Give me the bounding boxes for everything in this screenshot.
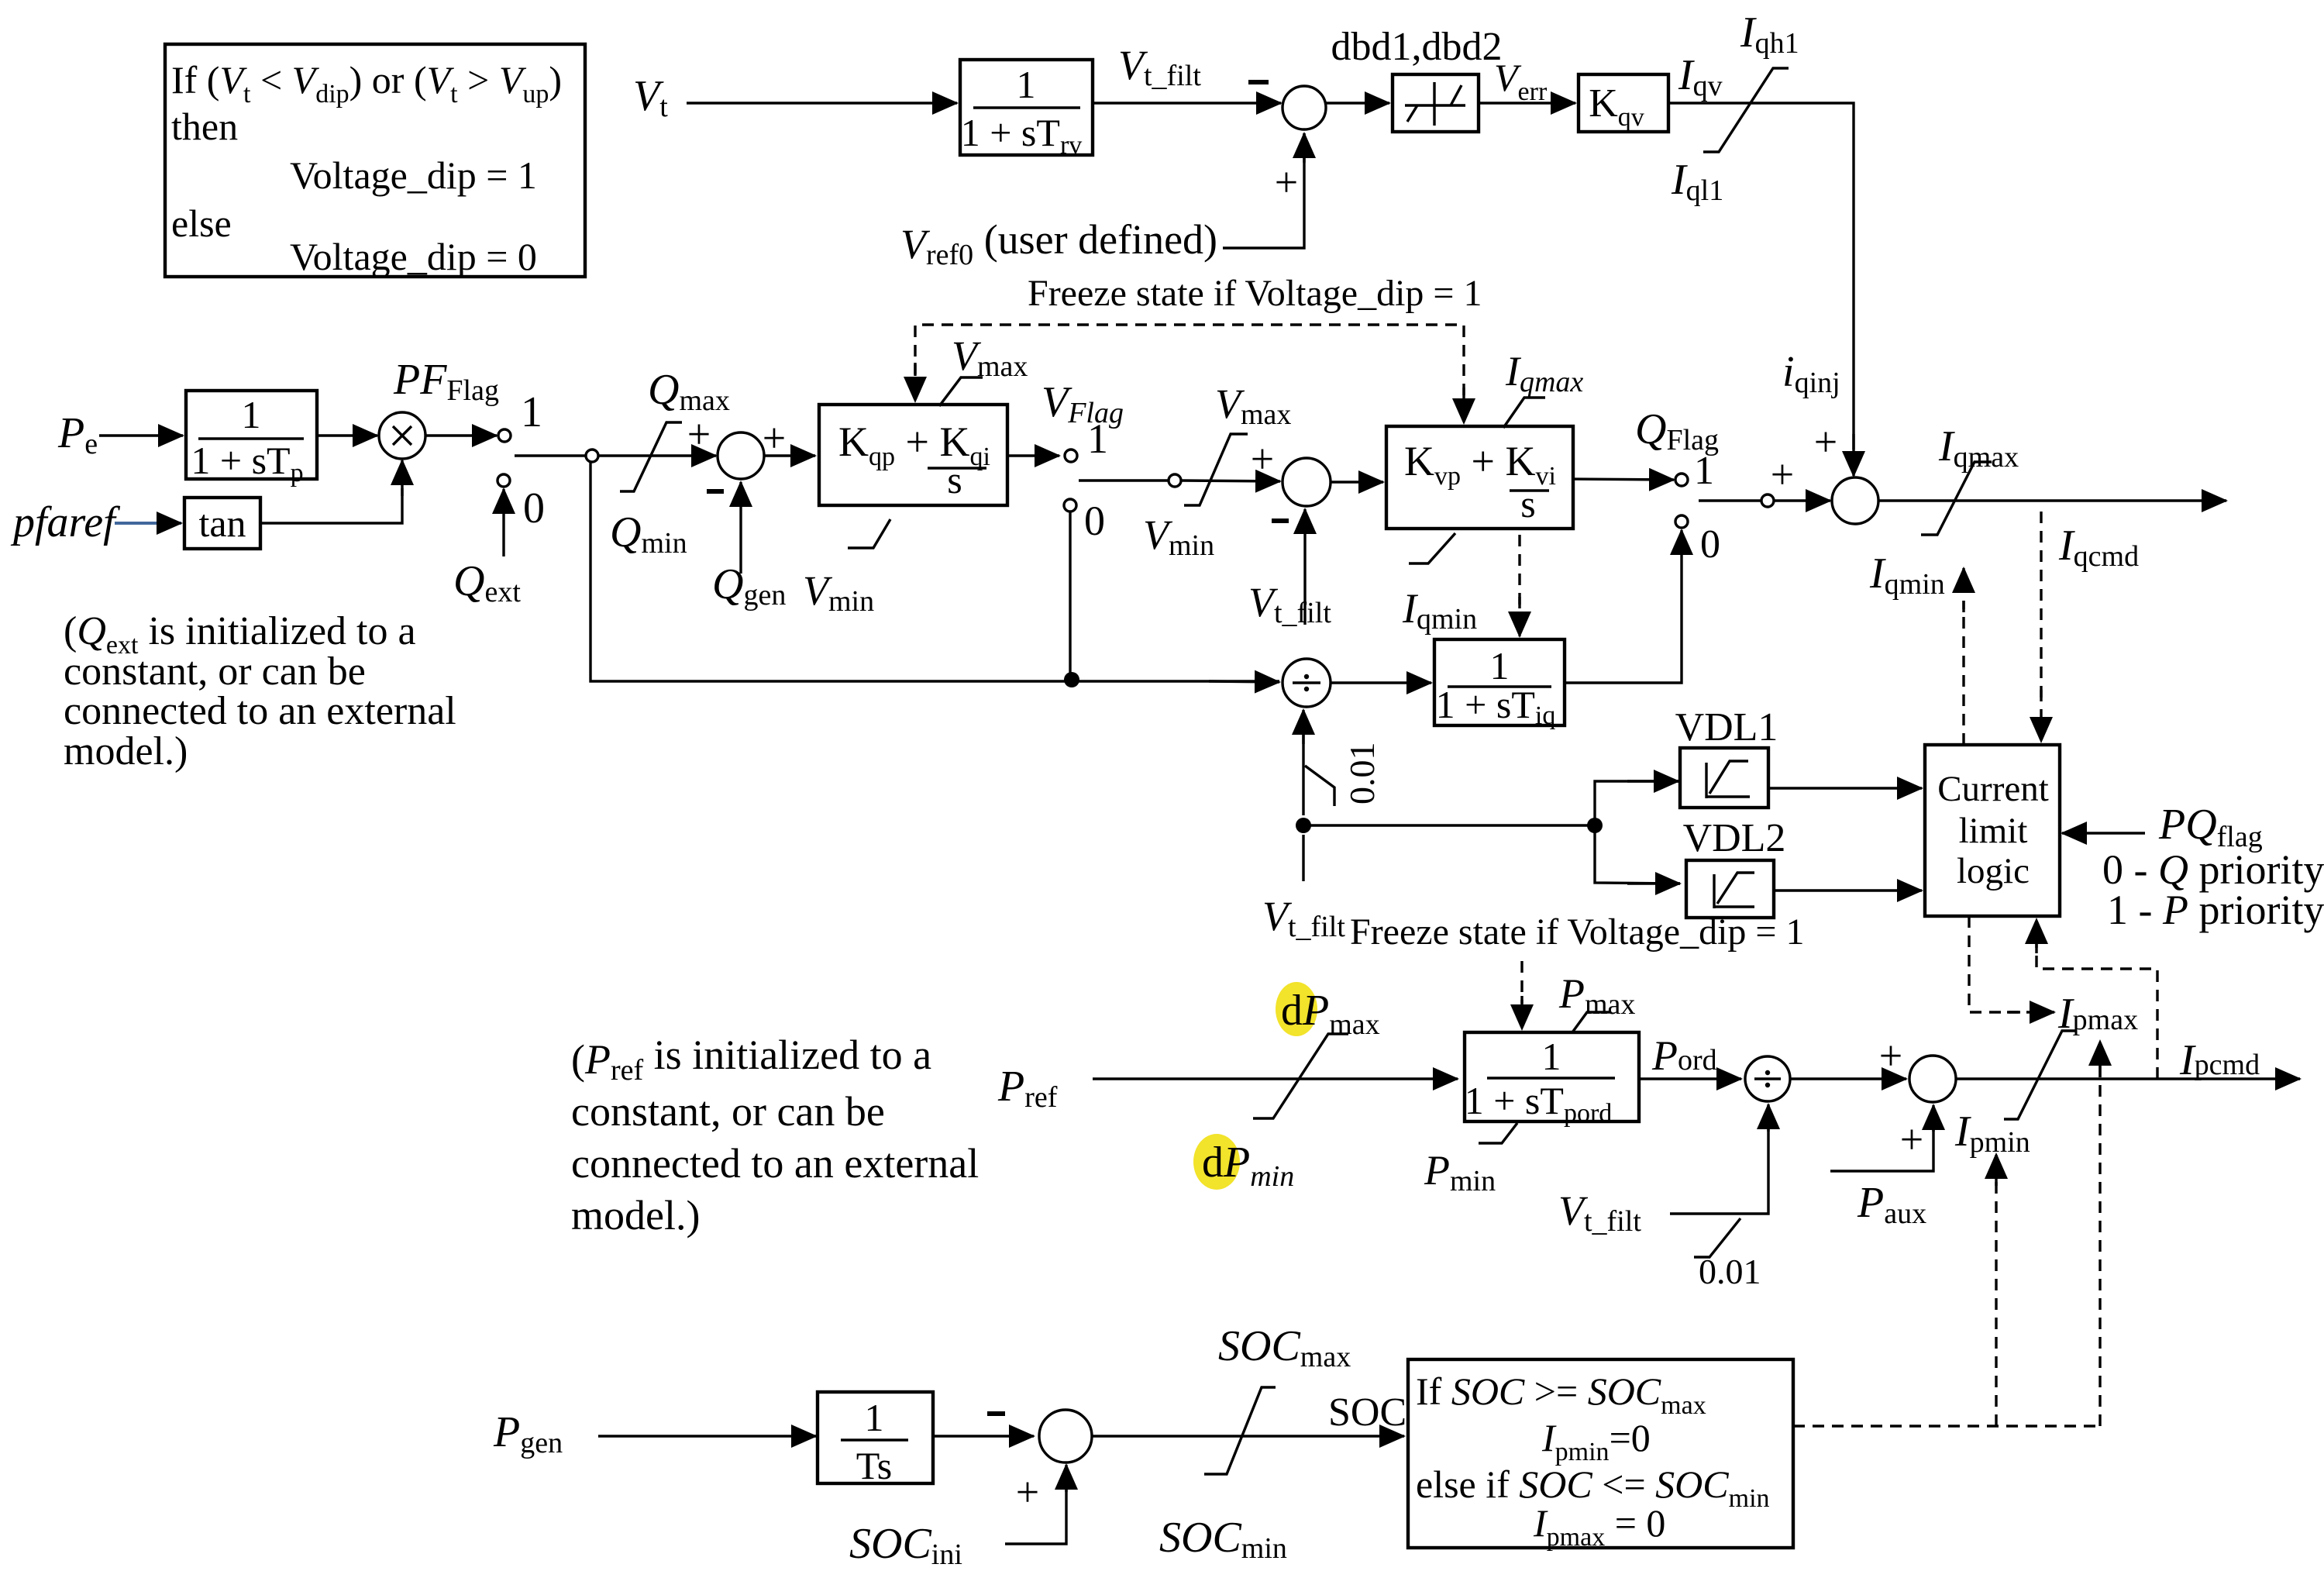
svg-text:Current: Current <box>1937 769 2049 809</box>
svg-text:0.01: 0.01 <box>1342 742 1382 805</box>
svg-text:If (Vt < Vdip) or (Vt > Vup): If (Vt < Vdip) or (Vt > Vup) <box>171 58 562 109</box>
svg-text:logic: logic <box>1957 851 2030 891</box>
svg-text:Ts: Ts <box>856 1444 893 1487</box>
svg-text:connected to an external: connected to an external <box>571 1140 979 1187</box>
svg-text:0 - Q priority: 0 - Q priority <box>2102 846 2324 893</box>
svg-text:limit: limit <box>1959 811 2028 851</box>
svg-text:+: + <box>1251 436 1274 482</box>
svg-text:+: + <box>1879 1032 1902 1079</box>
svg-text:s: s <box>1520 482 1535 525</box>
svg-text:+: + <box>687 411 711 457</box>
svg-text:else: else <box>171 202 232 245</box>
svg-text:model.): model.) <box>64 729 188 773</box>
svg-text:1: 1 <box>521 388 542 436</box>
svg-text:VDL1: VDL1 <box>1675 705 1778 749</box>
svg-text:dbd1,dbd2: dbd1,dbd2 <box>1331 25 1503 69</box>
svg-text:+: + <box>1016 1469 1039 1515</box>
svg-text:0.01: 0.01 <box>1699 1252 1761 1291</box>
svg-text:model.): model.) <box>571 1192 700 1239</box>
svg-text:0: 0 <box>1700 522 1720 567</box>
svg-text:1: 1 <box>1490 644 1510 687</box>
svg-text:Kqp + Kqi: Kqp + Kqi <box>838 419 990 471</box>
svg-text:pfaref: pfaref <box>10 498 121 546</box>
svg-text:+: + <box>1275 159 1298 205</box>
svg-text:Voltage_dip = 1: Voltage_dip = 1 <box>290 153 537 197</box>
svg-text:constant, or can be: constant, or can be <box>64 649 366 694</box>
svg-text:1 + sTp: 1 + sTp <box>191 439 303 487</box>
svg-text:else if SOC <= SOCmin: else if SOC <= SOCmin <box>1416 1462 1770 1513</box>
svg-text:then: then <box>171 105 238 148</box>
svg-text:1: 1 <box>865 1396 884 1439</box>
svg-text:+: + <box>763 415 786 461</box>
svg-text:VDL2: VDL2 <box>1683 816 1786 860</box>
svg-text:constant, or can be: constant, or can be <box>571 1088 885 1135</box>
svg-text:connected to an external: connected to an external <box>64 689 456 733</box>
svg-text:Freeze state if Voltage_dip =: Freeze state if Voltage_dip = 1 <box>1350 911 1804 953</box>
svg-text:1: 1 <box>242 393 261 436</box>
svg-text:tan: tan <box>198 501 246 545</box>
svg-text:Voltage_dip = 0: Voltage_dip = 0 <box>290 235 537 278</box>
svg-text:+: + <box>1900 1116 1923 1163</box>
svg-text:1: 1 <box>1542 1035 1561 1078</box>
svg-text:+: + <box>1771 451 1794 498</box>
svg-text:Freeze state if Voltage_dip =: Freeze state if Voltage_dip = 1 <box>1028 273 1482 314</box>
svg-text:0: 0 <box>1084 498 1105 544</box>
svg-text:1 - P priority: 1 - P priority <box>2107 887 2324 933</box>
svg-text:s: s <box>947 458 962 501</box>
svg-text:0: 0 <box>523 484 545 532</box>
svg-text:+: + <box>1814 419 1837 465</box>
svg-text:1: 1 <box>1017 63 1036 106</box>
svg-text:SOC: SOC <box>1328 1390 1406 1435</box>
